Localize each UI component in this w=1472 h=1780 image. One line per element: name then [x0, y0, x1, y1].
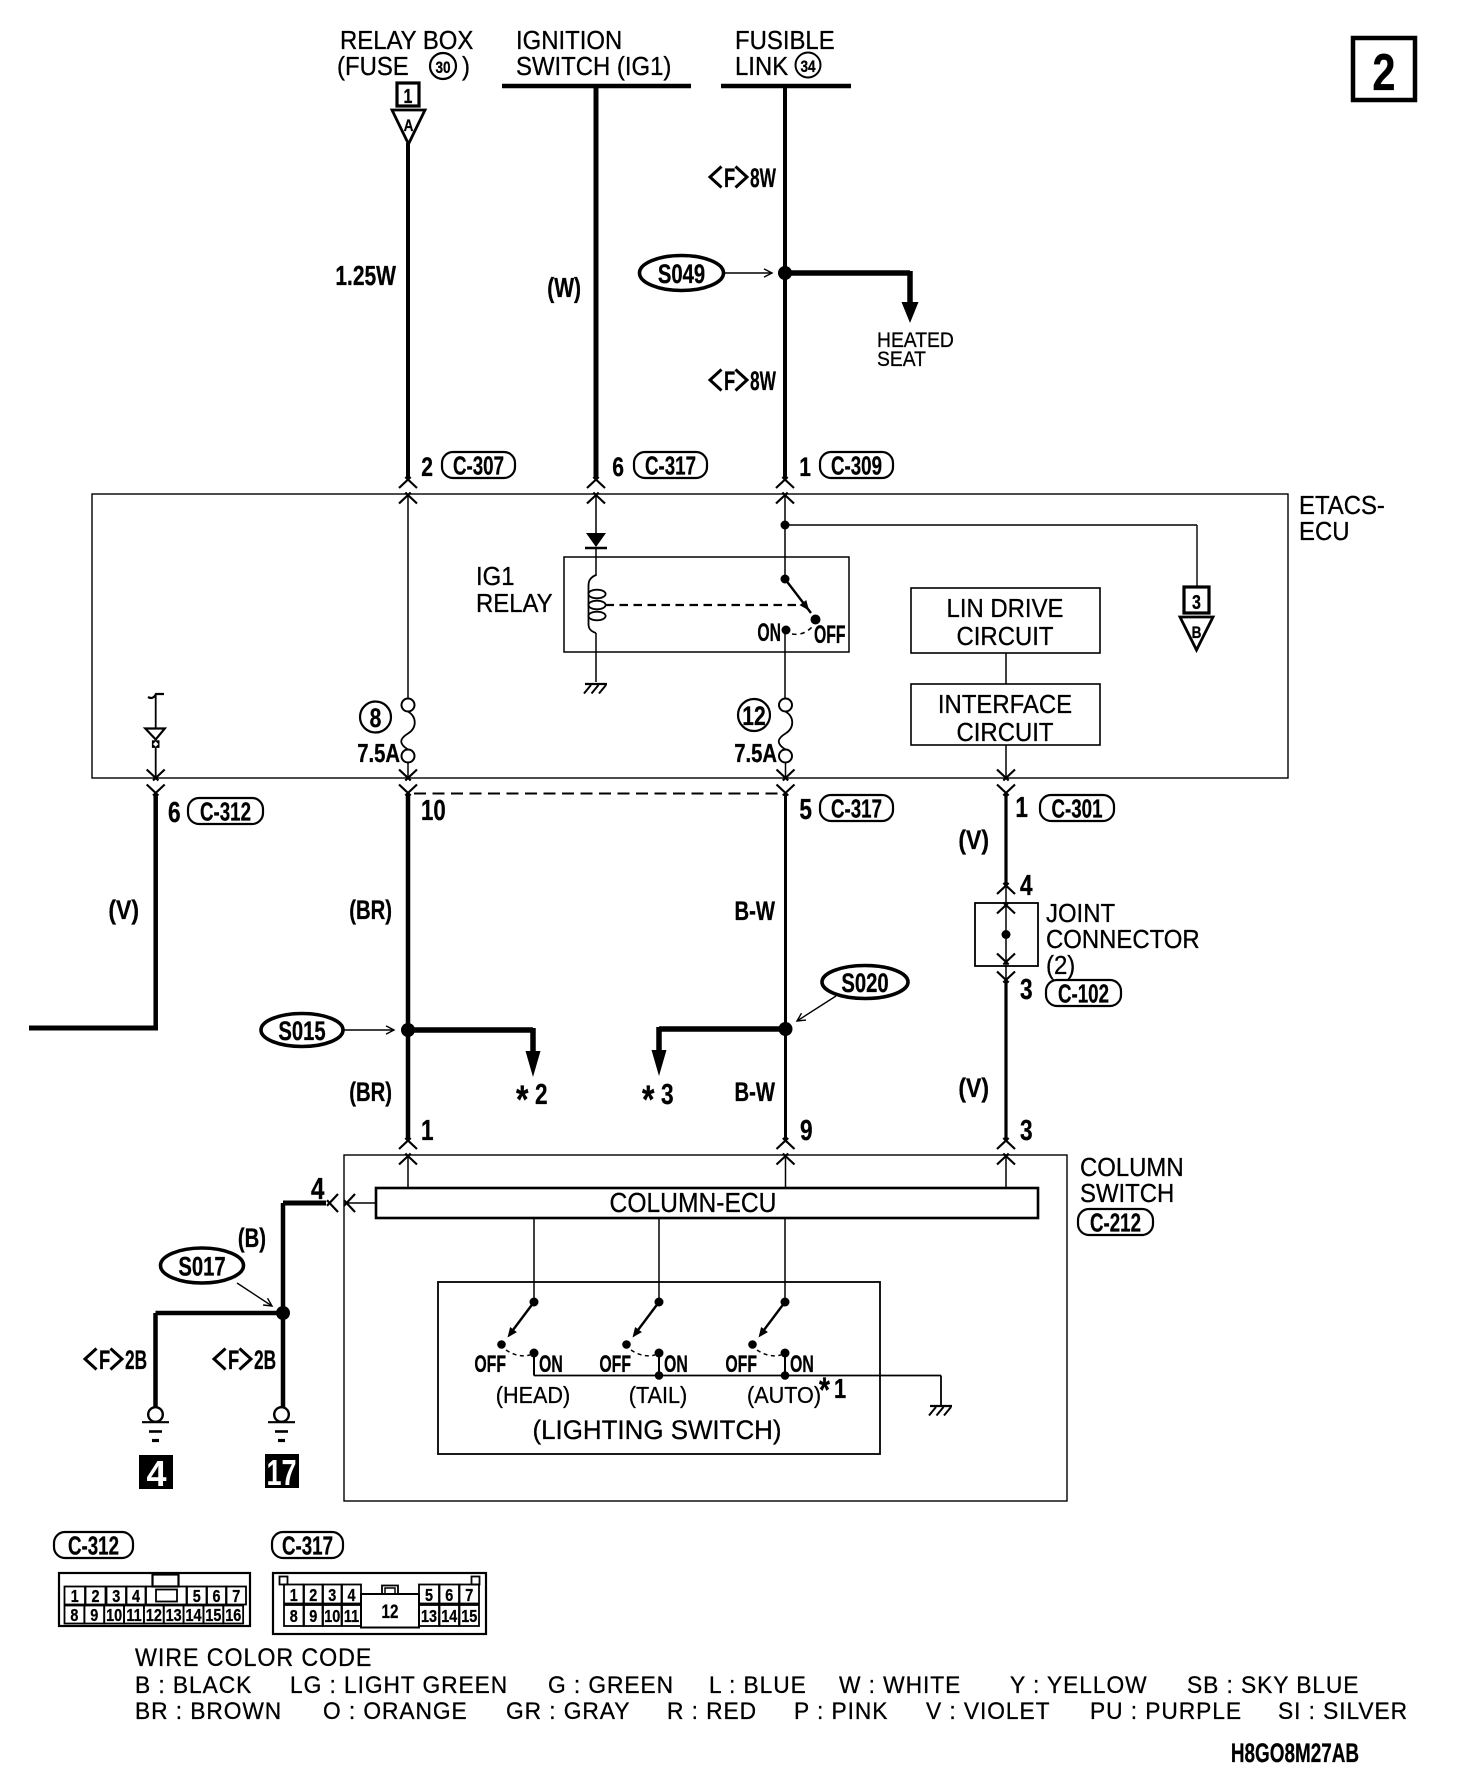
lighting switch AUTO — [725, 1298, 813, 1378]
svg-text:(TAIL): (TAIL) — [629, 1382, 687, 1408]
splice junction S049 — [778, 266, 792, 280]
crossing chevrons column switch pin 9 — [777, 1138, 789, 1149]
pin 6 and connector label C-317 top — [612, 450, 707, 482]
IG1 RELAY box — [564, 557, 849, 652]
wire color code row 2 — [135, 1698, 1408, 1725]
svg-text:1: 1 — [421, 1113, 434, 1146]
svg-text:15: 15 — [205, 1606, 221, 1626]
label *3 — [642, 1077, 674, 1122]
crossing chevrons column switch pin 1 — [399, 1138, 411, 1149]
svg-text:WIRE COLOR CODE: WIRE COLOR CODE — [135, 1644, 372, 1672]
ground point 17 — [265, 1454, 299, 1488]
wire color code row 1 — [135, 1672, 1359, 1699]
crossing chevrons ETACS bottom pin 5 — [777, 770, 789, 781]
svg-text:IG1: IG1 — [476, 562, 515, 591]
svg-text:9: 9 — [90, 1606, 98, 1626]
wire LIN to INTERFACE — [1005, 653, 1007, 684]
wire from ignition switch down to ETACS pin 6 — [594, 86, 599, 479]
wire label F 2B right — [214, 1349, 226, 1370]
svg-text:4: 4 — [146, 1453, 166, 1494]
label *2 — [516, 1077, 548, 1122]
svg-text:F: F — [228, 1344, 239, 1374]
svg-text:3: 3 — [1020, 972, 1033, 1005]
branch wire to *2 — [408, 1027, 533, 1033]
ground branch wire left — [156, 1311, 284, 1316]
svg-text:11: 11 — [344, 1607, 359, 1627]
connector C-317 pinout diagram — [273, 1573, 486, 1634]
svg-text:4: 4 — [132, 1587, 140, 1607]
pin 1 and connector label C-309 — [799, 450, 893, 482]
svg-text:12: 12 — [742, 702, 765, 732]
svg-text:7.5A: 7.5A — [357, 739, 400, 768]
svg-text:ON: ON — [757, 619, 781, 647]
crossing chevrons column ecu pin 4 — [347, 1202, 376, 1204]
splice junction S020 — [779, 1022, 793, 1036]
svg-text:LG : LIGHT GREEN: LG : LIGHT GREEN — [290, 1672, 508, 1699]
connector crossing chevrons at ETACS pin 1 — [776, 477, 788, 488]
svg-text:9: 9 — [800, 1113, 813, 1146]
svg-text:3: 3 — [112, 1587, 120, 1607]
wire from relay box fuse 1 down to ETACS pin 2 — [406, 143, 410, 479]
svg-text:6: 6 — [212, 1587, 220, 1607]
svg-text:O : ORANGE: O : ORANGE — [323, 1698, 468, 1725]
wire V from joint connector down to column switch pin 3 — [1004, 982, 1007, 1139]
svg-text:PU : PURPLE: PU : PURPLE — [1090, 1698, 1242, 1725]
wire pin2 down to fuse 8 — [407, 494, 409, 699]
svg-text:H8GO8M27AB: H8GO8M27AB — [1231, 1738, 1359, 1768]
connector C-312 pinout diagram — [59, 1573, 250, 1626]
crossing chevrons ETACS bottom left V wire — [147, 770, 159, 781]
svg-text:(BR): (BR) — [349, 1077, 392, 1108]
svg-text:OFF: OFF — [599, 1352, 631, 1378]
wire from splice S049 down to ETACS pin 1 — [783, 273, 787, 479]
relay coil chassis ground — [585, 683, 607, 685]
svg-text:ETACS-: ETACS- — [1299, 491, 1385, 520]
svg-text:CONNECTOR: CONNECTOR — [1046, 925, 1200, 954]
svg-text:11: 11 — [126, 1606, 141, 1626]
svg-text:8W: 8W — [750, 365, 776, 396]
svg-text:15: 15 — [461, 1607, 477, 1627]
wire INTERFACE down to ETACS edge — [1005, 745, 1007, 777]
svg-text:3: 3 — [661, 1077, 674, 1110]
splice junction S017 — [276, 1306, 290, 1320]
svg-text:13: 13 — [166, 1606, 182, 1626]
svg-text:10: 10 — [106, 1606, 122, 1626]
svg-text:(LIGHTING SWITCH): (LIGHTING SWITCH) — [533, 1415, 782, 1446]
terminal box 3 — [1184, 587, 1209, 613]
svg-text:6: 6 — [168, 795, 181, 828]
lighting switch TAIL — [599, 1298, 687, 1378]
power source label FUSIBLE LINK 34 — [735, 26, 835, 81]
svg-text:12: 12 — [146, 1606, 162, 1626]
wire from junction to triangle B — [785, 524, 1197, 526]
svg-text:14: 14 — [441, 1607, 457, 1627]
svg-text:3: 3 — [328, 1586, 336, 1606]
wire label F 8W lower — [710, 370, 722, 391]
COLUMN-ECU box — [376, 1188, 1038, 1218]
pin 3 and connector label C-102 — [1020, 972, 1121, 1008]
svg-text:C-317: C-317 — [831, 793, 882, 823]
page number 2 box — [1353, 38, 1415, 101]
svg-text:2: 2 — [1372, 43, 1395, 102]
pointer arrow from S015 to splice — [344, 1029, 394, 1031]
splice junction S015 — [401, 1023, 415, 1037]
fuse 8 — [360, 699, 415, 763]
svg-text:6: 6 — [612, 453, 624, 483]
svg-text:CIRCUIT: CIRCUIT — [957, 622, 1054, 651]
svg-text:CIRCUIT: CIRCUIT — [957, 718, 1054, 747]
svg-text:(W): (W) — [547, 273, 581, 304]
wire pin6 to diode and relay coil — [595, 494, 597, 533]
svg-text:LIN DRIVE: LIN DRIVE — [947, 594, 1064, 623]
splice label S015 — [261, 1014, 343, 1047]
svg-text:C-309: C-309 — [831, 450, 882, 480]
connector label C-317 bottom — [272, 1532, 343, 1558]
wire fuse 12 to ETACS bottom — [785, 762, 787, 777]
LIN DRIVE CIRCUIT box — [911, 588, 1100, 653]
svg-text:C-317: C-317 — [645, 450, 696, 480]
fuse 1 terminal box symbol — [397, 83, 419, 107]
switch common wire to ground — [534, 1375, 941, 1377]
svg-text:8: 8 — [290, 1607, 298, 1627]
svg-text:3: 3 — [1020, 1113, 1033, 1146]
relay control dashed link — [606, 604, 807, 606]
wire V from C-301 down to joint connector — [1004, 794, 1007, 884]
svg-text:*: * — [516, 1077, 529, 1122]
dashed link between pin 10 and pin 5 — [414, 793, 780, 795]
pointer arrow from S017 to splice — [237, 1283, 272, 1306]
label IG1 RELAY — [476, 562, 553, 618]
svg-text:5: 5 — [193, 1587, 201, 1607]
svg-text:F: F — [724, 365, 735, 395]
svg-text:16: 16 — [225, 1606, 241, 1626]
svg-text:ON: ON — [539, 1352, 563, 1378]
svg-text:): ) — [462, 52, 470, 81]
power source label RELAY BOX (FUSE 30) — [337, 26, 474, 81]
svg-text:12: 12 — [382, 1600, 399, 1622]
svg-text:B-W: B-W — [735, 1077, 776, 1108]
svg-text:1: 1 — [290, 1586, 298, 1606]
svg-text:F: F — [99, 1344, 110, 1374]
svg-text:14: 14 — [186, 1606, 202, 1626]
svg-text:B: B — [1192, 624, 1202, 643]
svg-text:SEAT: SEAT — [877, 348, 926, 371]
svg-text:(V): (V) — [108, 895, 139, 925]
connector triangle A — [392, 110, 425, 144]
svg-text:IGNITION: IGNITION — [516, 26, 622, 55]
left dimmer symbol inside ETACS — [145, 694, 165, 777]
svg-text:(B): (B) — [238, 1223, 266, 1254]
svg-text:3: 3 — [1192, 591, 1201, 613]
connector crossing chevrons at ETACS pin 6 — [587, 477, 599, 488]
svg-text:W : WHITE: W : WHITE — [839, 1672, 961, 1699]
svg-text:7.5A: 7.5A — [734, 739, 777, 768]
svg-text:S015: S015 — [278, 1016, 325, 1047]
svg-text:(V): (V) — [958, 825, 989, 855]
body ground left — [148, 1407, 163, 1422]
wire fuse 8 to ETACS bottom — [407, 762, 409, 777]
pin 6 and connector label C-312 — [168, 795, 263, 828]
svg-text:INTERFACE: INTERFACE — [938, 690, 1072, 719]
svg-text:10: 10 — [324, 1607, 340, 1627]
label ETACS-ECU — [1299, 491, 1385, 546]
svg-text:C-301: C-301 — [1052, 793, 1103, 823]
svg-text:*: * — [642, 1077, 655, 1122]
pin 5 and connector label C-317 — [799, 792, 893, 825]
ground branch wire right — [281, 1313, 286, 1408]
svg-text:(HEAD): (HEAD) — [496, 1382, 570, 1408]
svg-text:A: A — [404, 117, 414, 136]
svg-text:COLUMN-ECU: COLUMN-ECU — [610, 1187, 777, 1219]
pin 2 and connector label C-307 — [421, 450, 515, 482]
svg-text:G : GREEN: G : GREEN — [548, 1672, 674, 1699]
label JOINT CONNECTOR (2) — [1046, 899, 1200, 980]
ETACS-ECU box — [92, 494, 1288, 778]
svg-text:Y : YELLOW: Y : YELLOW — [1010, 1672, 1148, 1699]
diode on ignition wire — [585, 533, 607, 548]
wire BR from splice S015 down to column switch pin 1 — [406, 1030, 411, 1139]
branch wire to heated seat — [785, 270, 910, 276]
power source label IGNITION SWITCH (IG1) — [516, 26, 671, 81]
ignition switch supply bar — [502, 84, 691, 89]
svg-text:C-312: C-312 — [200, 796, 251, 826]
svg-text:13: 13 — [421, 1607, 437, 1627]
svg-text:1: 1 — [404, 85, 413, 107]
svg-text:C-212: C-212 — [1090, 1207, 1141, 1237]
connector triangle B — [1180, 617, 1213, 650]
svg-text:FUSIBLE: FUSIBLE — [735, 26, 835, 55]
svg-text:6: 6 — [445, 1586, 453, 1606]
svg-text:1: 1 — [799, 453, 811, 483]
svg-text:34: 34 — [800, 58, 816, 77]
label COLUMN SWITCH C-212 — [1078, 1153, 1184, 1237]
svg-text:B : BLACK: B : BLACK — [135, 1672, 252, 1699]
svg-text:2B: 2B — [125, 1344, 147, 1375]
wire BR from pin 10 down to splice S015 — [406, 794, 411, 1030]
svg-text:S017: S017 — [178, 1252, 225, 1283]
svg-text:C-317: C-317 — [282, 1530, 333, 1560]
svg-text:C-312: C-312 — [68, 1530, 119, 1560]
wire column ecu to auto switch — [784, 1218, 786, 1302]
wire label F 8W upper — [710, 167, 722, 188]
ground point 4 — [139, 1455, 173, 1489]
LIGHTING SWITCH box — [438, 1282, 880, 1454]
connector label C-312 bottom — [54, 1532, 133, 1558]
svg-text:1.25W: 1.25W — [335, 261, 396, 292]
wire B-W from pin 5 down to splice S020 — [784, 794, 787, 1029]
svg-text:BR : BROWN: BR : BROWN — [135, 1698, 282, 1725]
joint connector chevrons above — [1005, 884, 1007, 903]
svg-text:L : BLUE: L : BLUE — [709, 1672, 807, 1699]
svg-text:(FUSE: (FUSE — [337, 52, 409, 81]
junction on relay supply to node B — [781, 521, 790, 530]
svg-text:ECU: ECU — [1299, 517, 1349, 546]
svg-text:S049: S049 — [658, 259, 705, 290]
svg-text:SWITCH (IG1): SWITCH (IG1) — [516, 52, 671, 81]
svg-text:OFF: OFF — [725, 1352, 757, 1378]
svg-text:5: 5 — [799, 792, 812, 825]
crossing chevrons ETACS bottom pin 1 C-301 — [997, 770, 1009, 781]
svg-text:(2): (2) — [1046, 951, 1075, 980]
svg-text:4: 4 — [1020, 868, 1033, 901]
svg-text:C-307: C-307 — [453, 450, 504, 480]
svg-text:7: 7 — [465, 1586, 473, 1606]
svg-text:OFF: OFF — [814, 621, 845, 649]
svg-text:V : VIOLET: V : VIOLET — [926, 1698, 1050, 1725]
wire from fusible link down to splice S049 — [783, 86, 787, 273]
svg-text:2B: 2B — [254, 1344, 276, 1375]
svg-text:(V): (V) — [958, 1073, 989, 1103]
splice label S049 — [640, 256, 724, 291]
wire B from column ecu to splice S017 — [283, 1201, 326, 1206]
wire label F 2B left — [85, 1349, 97, 1370]
svg-text:5: 5 — [425, 1586, 433, 1606]
svg-text:1: 1 — [71, 1587, 79, 1607]
svg-text:RELAY: RELAY — [476, 589, 553, 618]
svg-text:RELAY BOX: RELAY BOX — [340, 26, 474, 55]
svg-text:R : RED: R : RED — [667, 1698, 757, 1725]
svg-text:2: 2 — [535, 1077, 548, 1110]
left V wire down and out to the left — [153, 794, 158, 1028]
svg-text:30: 30 — [435, 59, 450, 78]
svg-text:ON: ON — [790, 1352, 814, 1378]
svg-text:OFF: OFF — [474, 1352, 506, 1378]
body ground right — [274, 1407, 289, 1422]
svg-text:8: 8 — [70, 1606, 78, 1626]
relay switch — [781, 494, 821, 699]
svg-text:B-W: B-W — [735, 896, 776, 927]
relay coil — [588, 575, 605, 682]
svg-text:(BR): (BR) — [349, 895, 392, 926]
svg-text:8: 8 — [370, 704, 382, 734]
svg-text:SWITCH: SWITCH — [1080, 1179, 1174, 1208]
branch wire to *3 — [659, 1026, 786, 1032]
label HEATED SEAT — [877, 329, 954, 371]
svg-text:8W: 8W — [750, 162, 776, 193]
svg-text:17: 17 — [266, 1452, 296, 1493]
svg-text:LINK: LINK — [735, 52, 788, 81]
JOINT CONNECTOR (2) box — [975, 903, 1038, 967]
crossing chevrons ETACS bottom pin 10 — [399, 770, 411, 781]
svg-text:F: F — [724, 162, 735, 192]
wire column ecu to tail switch — [658, 1218, 660, 1302]
pointer arrow from S020 to splice — [797, 996, 836, 1021]
svg-text:9: 9 — [309, 1607, 317, 1627]
svg-text:2: 2 — [91, 1587, 99, 1607]
INTERFACE CIRCUIT box — [911, 684, 1100, 747]
lighting switch HEAD — [474, 1298, 562, 1378]
svg-text:COLUMN: COLUMN — [1080, 1153, 1184, 1182]
svg-text:C-102: C-102 — [1058, 978, 1109, 1008]
svg-text:S020: S020 — [841, 968, 888, 999]
label (AUTO) *1 — [747, 1370, 846, 1410]
pin 1 and connector label C-301 — [1015, 790, 1114, 823]
splice label S017 — [161, 1248, 244, 1283]
fusible link supply bar — [721, 84, 851, 89]
svg-text:P : PINK: P : PINK — [794, 1698, 888, 1725]
svg-text:JOINT: JOINT — [1046, 899, 1115, 928]
pointer arrow from S049 to splice — [724, 272, 772, 274]
svg-text:ON: ON — [664, 1352, 688, 1378]
svg-text:4: 4 — [347, 1586, 355, 1606]
svg-text:SI : SILVER: SI : SILVER — [1278, 1698, 1408, 1725]
wire column ecu to head switch — [533, 1218, 535, 1302]
svg-text:2: 2 — [421, 453, 433, 483]
svg-text:1: 1 — [1015, 790, 1028, 823]
svg-text:2: 2 — [309, 1586, 317, 1606]
svg-text:7: 7 — [232, 1587, 240, 1607]
svg-text:(AUTO): (AUTO) — [747, 1382, 821, 1408]
wire B-W from splice S020 down to column switch pin 9 — [784, 1029, 787, 1139]
joint connector chevrons below — [1005, 966, 1007, 982]
svg-text:GR : GRAY: GR : GRAY — [506, 1698, 630, 1725]
svg-text:SB : SKY BLUE: SB : SKY BLUE — [1187, 1672, 1359, 1699]
lighting switch chassis ground — [930, 1405, 952, 1407]
splice label S020 — [822, 966, 908, 999]
COLUMN SWITCH box — [344, 1155, 1067, 1501]
crossing chevrons column switch pin 3 — [997, 1138, 1009, 1149]
svg-text:10: 10 — [421, 795, 446, 826]
fuse 12 — [738, 699, 792, 763]
svg-text:1: 1 — [834, 1373, 846, 1404]
connector crossing chevrons at ETACS pin 2 — [399, 477, 411, 488]
